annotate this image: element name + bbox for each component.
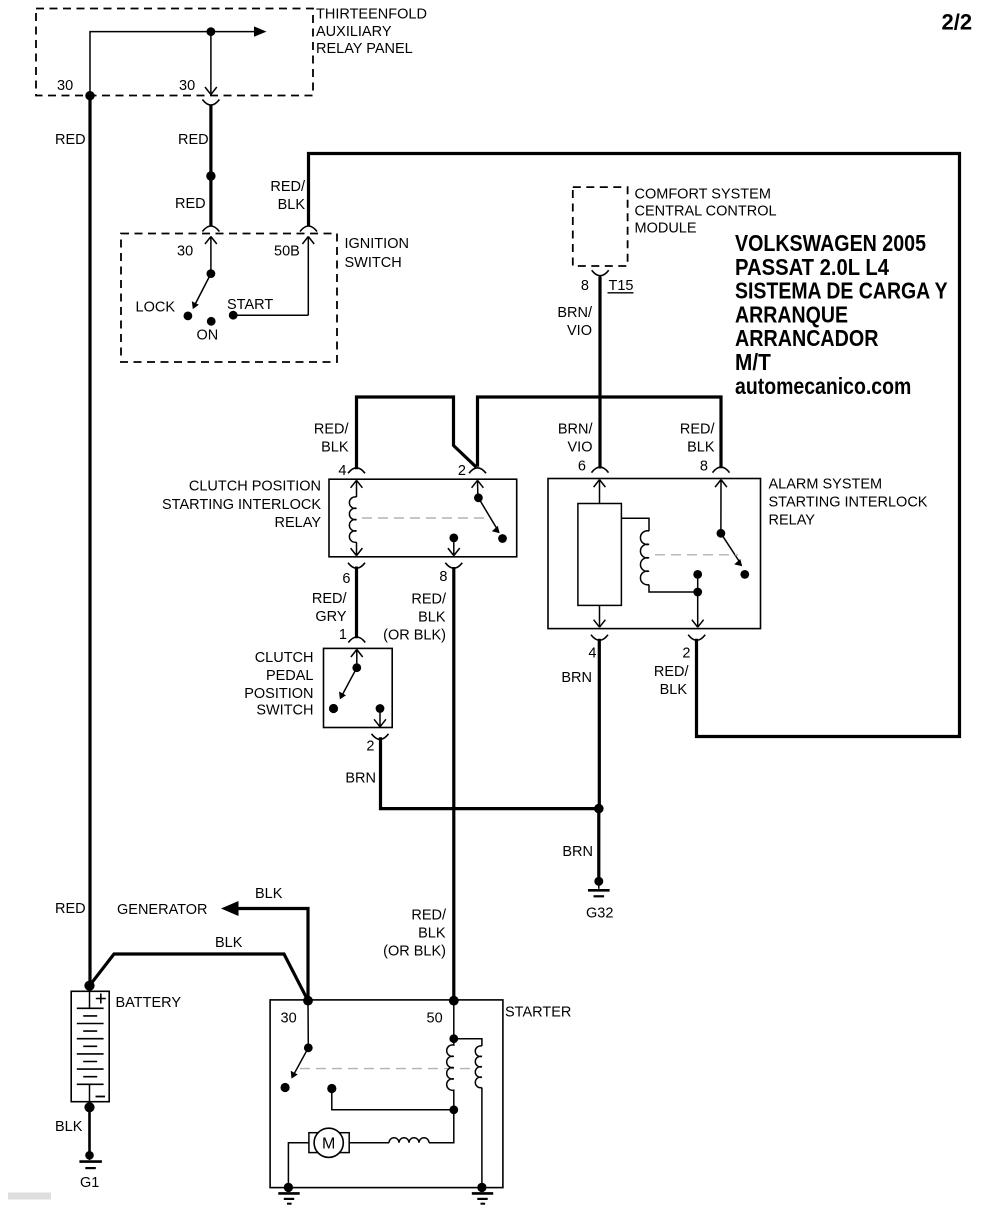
- connector arc above ignition pin 50B: [300, 226, 317, 232]
- arrowhead right inside panel: [254, 26, 267, 36]
- alarm switch blade: [721, 533, 739, 561]
- svg-text:M/T: M/T: [735, 349, 771, 375]
- pedal contact dot left: [329, 704, 338, 713]
- starter switch pivot dot: [304, 1043, 313, 1052]
- svg-text:50B: 50B: [274, 244, 300, 260]
- svg-text:SWITCH: SWITCH: [345, 255, 402, 271]
- svg-text:2: 2: [366, 739, 374, 755]
- wire alarm pin4 BRN down to junction: [598, 639, 601, 809]
- motor M1: [309, 1128, 349, 1157]
- svg-text:BRN/: BRN/: [558, 422, 594, 438]
- watermark smudge bottom left: [8, 1193, 51, 1200]
- blade arrowhead: [192, 301, 199, 309]
- svg-text:BLK: BLK: [660, 682, 688, 698]
- svg-text:RED/: RED/: [654, 664, 690, 680]
- arrow up alarm pin 6: [594, 480, 606, 504]
- svg-text:ARRANCADOR: ARRANCADOR: [735, 325, 879, 351]
- dashed actuation link starter: [300, 1068, 474, 1070]
- pedal switch pivot dot: [352, 663, 361, 672]
- pedal blade arrowhead: [339, 692, 346, 700]
- svg-text:30: 30: [179, 78, 195, 94]
- svg-text:SISTEMA DE CARGA Y: SISTEMA DE CARGA Y: [735, 278, 948, 304]
- alarm system starting interlock relay box: [548, 477, 928, 629]
- connector arc alarm pin 4: [591, 635, 608, 641]
- svg-text:MODULE: MODULE: [635, 221, 697, 237]
- svg-text:(OR BLK): (OR BLK): [383, 628, 446, 644]
- svg-text:1: 1: [339, 627, 347, 643]
- motor series inductor: [389, 1138, 429, 1143]
- svg-text:CENTRAL CONTROL: CENTRAL CONTROL: [635, 204, 777, 220]
- arrow down pedal pin 2: [374, 709, 386, 727]
- starter pin 30 junction dot: [303, 996, 313, 1006]
- connector arc pedal pin 2: [372, 734, 389, 740]
- wire BLK battery to starter 30: [90, 954, 309, 1001]
- arrow down alarm pin 2: [692, 592, 704, 627]
- starter box: [270, 1000, 571, 1188]
- svg-text:VOLKSWAGEN 2005: VOLKSWAGEN 2005: [735, 230, 926, 256]
- junction dot BRN: [594, 804, 604, 814]
- clutch pedal position switch box: [244, 648, 392, 727]
- connector arc alarm pin 8: [713, 467, 730, 473]
- battery plates short: [83, 1016, 97, 1077]
- connector arc above ignition pin 30: [202, 226, 219, 232]
- svg-text:BLK: BLK: [418, 926, 446, 942]
- svg-text:GENERATOR: GENERATOR: [117, 902, 208, 918]
- generator arrow wire BLK: [234, 909, 308, 1001]
- contact START dot: [229, 311, 238, 320]
- arrow up clutch pin 2: [472, 480, 484, 498]
- svg-text:RED/: RED/: [314, 422, 350, 438]
- svg-text:RED: RED: [55, 901, 86, 917]
- generator arrowhead: [221, 901, 239, 916]
- svg-text:8: 8: [700, 459, 708, 475]
- wire motor to ground left: [288, 1143, 309, 1188]
- starter switch feed line: [307, 1001, 309, 1048]
- pedal contact dot pin 2: [376, 704, 385, 713]
- connector arc alarm pin 2: [688, 635, 705, 641]
- svg-text:BRN: BRN: [562, 844, 593, 860]
- svg-text:6: 6: [342, 571, 350, 587]
- svg-text:M: M: [322, 1136, 335, 1153]
- svg-text:IGNITION: IGNITION: [345, 236, 409, 252]
- svg-text:BLK: BLK: [55, 1119, 83, 1135]
- svg-text:BLK: BLK: [321, 440, 349, 456]
- wire down to panel pin 30: [210, 32, 212, 94]
- svg-text:ARRANQUE: ARRANQUE: [735, 301, 848, 327]
- arrow up clutch pin 4: [351, 480, 363, 497]
- arrow down at panel bottom edge: [205, 87, 217, 95]
- svg-text:30: 30: [57, 78, 73, 94]
- svg-text:(OR BLK): (OR BLK): [383, 944, 446, 960]
- connector arc clutch pin 4: [348, 468, 365, 474]
- svg-text:LOCK: LOCK: [136, 300, 176, 316]
- svg-text:RELAY PANEL: RELAY PANEL: [316, 41, 413, 57]
- clutch contact dot right: [498, 534, 507, 543]
- comfort system central control module box: [573, 187, 777, 267]
- contact LOCK dot: [184, 312, 193, 321]
- ground G1: [79, 1151, 102, 1191]
- arrow up at ignition pin 30: [205, 237, 217, 274]
- connector arc below panel (pin 30): [202, 100, 219, 106]
- svg-text:BATTERY: BATTERY: [116, 995, 182, 1011]
- relay coil clutch: [349, 497, 356, 543]
- battery plus terminal stem: [89, 991, 91, 1008]
- svg-text:50: 50: [427, 1011, 443, 1027]
- arrow down clutch coil bottom: [351, 542, 363, 555]
- pedal switch blade: [343, 668, 357, 694]
- wire RED panel to ignition switch: [209, 106, 212, 227]
- battery plus sign: [96, 994, 106, 1004]
- ignition switch pivot dot: [207, 269, 216, 278]
- wire bus right segment pin2 to alarm pin8: [478, 397, 722, 468]
- svg-text:RED/: RED/: [312, 591, 348, 607]
- wire alarm coil to pin 2 node: [649, 585, 698, 592]
- dashed actuation link clutch: [362, 517, 490, 519]
- wire pedal pin2 BRN to junction: [381, 737, 599, 808]
- svg-text:CLUTCH: CLUTCH: [255, 650, 314, 666]
- wire clutch pin8 down to starter 50: [452, 567, 455, 1001]
- wire clutch pin6 to pedal pin1 RED/GRY: [355, 567, 358, 639]
- ignition switch box: [121, 234, 409, 363]
- svg-text:GRY: GRY: [315, 609, 346, 625]
- wire RED left vertical to battery: [88, 96, 91, 986]
- svg-text:2: 2: [458, 463, 466, 479]
- svg-text:BRN: BRN: [345, 771, 376, 787]
- svg-text:BRN: BRN: [561, 670, 592, 686]
- svg-text:8: 8: [581, 278, 589, 294]
- arrow down clutch pin 8: [448, 538, 460, 556]
- wire BLK battery to ground G1: [88, 1107, 91, 1155]
- connector arc alarm pin 6: [592, 467, 609, 473]
- svg-text:RED/: RED/: [411, 592, 447, 608]
- svg-text:THIRTEENFOLD: THIRTEENFOLD: [316, 7, 427, 23]
- svg-text:30: 30: [177, 244, 193, 260]
- arrow up at ignition pin 50B: [302, 237, 314, 316]
- svg-text:2: 2: [682, 646, 690, 662]
- svg-text:VIO: VIO: [568, 440, 593, 456]
- starter ground right: [472, 1183, 493, 1204]
- svg-text:SWITCH: SWITCH: [256, 703, 313, 719]
- svg-text:RED: RED: [55, 132, 86, 148]
- wire control unit to alarm coil: [621, 518, 649, 531]
- battery plates long: [77, 1008, 104, 1084]
- svg-text:4: 4: [338, 463, 346, 479]
- clutch position starting interlock relay box: [162, 479, 517, 557]
- wire contact mid to solenoid node: [332, 1089, 454, 1110]
- wire inductor to motor: [349, 1142, 389, 1144]
- svg-text:automecanico.com: automecanico.com: [735, 373, 911, 399]
- solenoid top node dot: [449, 1034, 458, 1043]
- arrow down alarm pin 4: [594, 605, 606, 627]
- starter blade arrowhead: [291, 1071, 298, 1079]
- wire RED/BLK loop from ignition 50B around right side to alarm relay pin 2: [309, 154, 960, 737]
- svg-text:6: 6: [578, 459, 586, 475]
- svg-text:STARTING INTERLOCK: STARTING INTERLOCK: [769, 495, 928, 511]
- svg-text:RED: RED: [178, 132, 209, 148]
- svg-text:2/2: 2/2: [942, 10, 973, 35]
- title block: [735, 230, 948, 399]
- svg-text:STARTING INTERLOCK: STARTING INTERLOCK: [162, 497, 321, 513]
- svg-text:CLUTCH POSITION: CLUTCH POSITION: [189, 479, 321, 495]
- svg-text:START: START: [227, 297, 273, 313]
- svg-text:ON: ON: [197, 328, 219, 344]
- svg-text:COMFORT SYSTEM: COMFORT SYSTEM: [635, 187, 771, 203]
- ground G32: [586, 877, 613, 922]
- ignition switch blade: [196, 274, 211, 304]
- thirteenfold auxiliary relay panel box: [36, 7, 427, 96]
- clutch contact dot pin 8: [449, 534, 458, 543]
- solenoid pull-in coil: [447, 1039, 454, 1110]
- connector arc pedal pin 1: [348, 637, 365, 643]
- svg-text:VIO: VIO: [567, 323, 592, 339]
- alarm contact dot lower: [693, 588, 702, 597]
- wire bus left segment pin4 to pin2 of clutch relay: [357, 397, 477, 469]
- wire BRN/VIO from T15 down to alarm relay pin 6: [598, 277, 601, 469]
- svg-text:ALARM SYSTEM: ALARM SYSTEM: [769, 477, 883, 493]
- battery minus sign: [96, 1096, 106, 1098]
- svg-text:4: 4: [588, 646, 596, 662]
- starter ground left: [278, 1183, 299, 1204]
- svg-text:RED/: RED/: [270, 179, 306, 195]
- link between alarm contact dots: [697, 574, 699, 592]
- arrow up pedal pin 1: [351, 650, 363, 668]
- battery: [71, 991, 181, 1101]
- junction dot inside panel: [207, 27, 216, 36]
- svg-text:STARTER: STARTER: [505, 1005, 571, 1021]
- alarm switch pivot dot: [717, 529, 726, 538]
- svg-text:BLK: BLK: [215, 935, 243, 951]
- clutch switch pivot dot: [474, 493, 483, 502]
- alarm blade arrowhead: [734, 559, 742, 566]
- starter switch blade: [294, 1048, 308, 1074]
- svg-text:PASSAT 2.0L L4: PASSAT 2.0L L4: [735, 254, 889, 280]
- svg-text:RED/: RED/: [680, 422, 716, 438]
- alarm contact dot upper: [693, 570, 702, 579]
- svg-text:PEDAL: PEDAL: [266, 668, 314, 684]
- svg-text:T15: T15: [609, 278, 634, 294]
- battery minus terminal stem: [89, 1084, 91, 1101]
- starter contact dot left: [281, 1083, 290, 1092]
- svg-text:RED/: RED/: [411, 908, 447, 924]
- svg-text:BLK: BLK: [418, 610, 446, 626]
- svg-text:8: 8: [439, 569, 447, 585]
- starter pin 50 junction dot: [449, 996, 459, 1006]
- solenoid hold-in coil: [475, 1046, 482, 1088]
- battery negative junction dot: [84, 1102, 94, 1112]
- svg-text:BLK: BLK: [278, 197, 306, 213]
- junction dot at panel bottom left: [85, 91, 94, 100]
- battery positive junction dot: [84, 981, 94, 991]
- svg-text:POSITION: POSITION: [244, 686, 313, 702]
- svg-text:G32: G32: [586, 906, 613, 922]
- wire START to 50B: [233, 314, 308, 316]
- connector arc clutch pin 2: [469, 468, 486, 474]
- svg-text:BLK: BLK: [255, 886, 283, 902]
- svg-text:BRN/: BRN/: [557, 305, 593, 321]
- wire inside panel from node 30 left: [90, 32, 262, 96]
- clutch switch blade: [478, 498, 496, 528]
- connector arc clutch pin 6: [348, 563, 365, 569]
- contact ON dot: [207, 317, 216, 326]
- wire hold-in coil to ground: [481, 1088, 483, 1188]
- starter pin 50 feed line: [453, 1001, 455, 1039]
- svg-text:AUXILIARY: AUXILIARY: [316, 24, 392, 40]
- splice dot on RED wire: [206, 171, 215, 180]
- svg-text:30: 30: [281, 1011, 297, 1027]
- dashed actuation link alarm: [655, 554, 738, 556]
- svg-text:RELAY: RELAY: [769, 513, 816, 529]
- connector arc clutch pin 8: [445, 563, 462, 569]
- wire to hold-in coil: [454, 1039, 482, 1046]
- label T15 underlined: [608, 278, 634, 294]
- svg-text:G1: G1: [80, 1175, 99, 1191]
- solenoid node dot lower: [449, 1105, 458, 1114]
- starter contact dot mid: [327, 1084, 336, 1093]
- wire BRN junction to ground G32: [597, 809, 600, 881]
- alarm contact dot right: [740, 570, 749, 579]
- clutch blade arrowhead: [492, 526, 500, 533]
- connector arc below comfort module: [592, 270, 609, 276]
- wire solenoid node down to motor branch: [429, 1110, 454, 1143]
- arrow up alarm pin 8: [715, 480, 727, 534]
- svg-text:RELAY: RELAY: [275, 515, 322, 531]
- alarm control unit rectangle U1: [578, 504, 622, 606]
- alarm relay coil: [640, 531, 649, 585]
- svg-text:BLK: BLK: [687, 440, 715, 456]
- svg-text:RED: RED: [175, 196, 206, 212]
